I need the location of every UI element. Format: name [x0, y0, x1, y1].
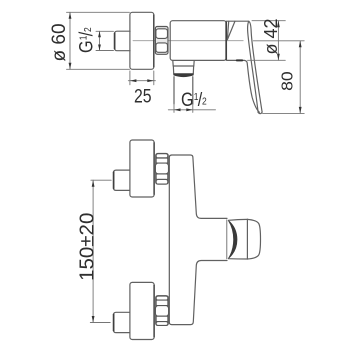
top hex nut (front view) [155, 153, 168, 184]
handle knob (front view) [227, 219, 261, 259]
shower outlet (side view) [173, 61, 194, 104]
centerline [133, 40, 243, 42]
top wall nipple (front view) [114, 170, 130, 190]
top wall flange (front view) [130, 140, 154, 197]
dimension 80 [253, 41, 304, 114]
dimension 25 [128, 71, 155, 85]
wall flange ø60 (side view) [130, 12, 154, 69]
dimension 150±20 [90, 180, 111, 322]
bottom wall flange (front view) [130, 282, 154, 339]
handle lever blade (side view) [248, 21, 262, 113]
dimension G1/2 inlet [96, 31, 114, 50]
bottom wall nipple (front view) [114, 312, 130, 332]
bottom hex nut (front view) [155, 296, 168, 326]
wall nipple G1/2 (side view) [115, 31, 131, 51]
dimension ø42 [248, 21, 286, 61]
hex nut (side view) [155, 27, 168, 55]
svg-text:G1/2: G1/2 [75, 27, 97, 53]
mixer body (side view) [170, 21, 226, 61]
svg-text:ø 60: ø 60 [49, 23, 70, 61]
svg-text:80: 80 [278, 71, 296, 91]
svg-text:G1/2: G1/2 [181, 89, 207, 111]
dimension G1/2 outlet [168, 104, 215, 112]
mixer body (front view) [169, 155, 227, 325]
svg-text:ø 42: ø 42 [261, 18, 281, 54]
handle escutcheon (side view) [226, 21, 248, 39]
svg-text:150±20: 150±20 [75, 213, 98, 281]
dimension ø60 [67, 12, 130, 69]
escutcheon skirt edge (side view) [227, 60, 260, 112]
svg-text:25: 25 [134, 85, 152, 107]
